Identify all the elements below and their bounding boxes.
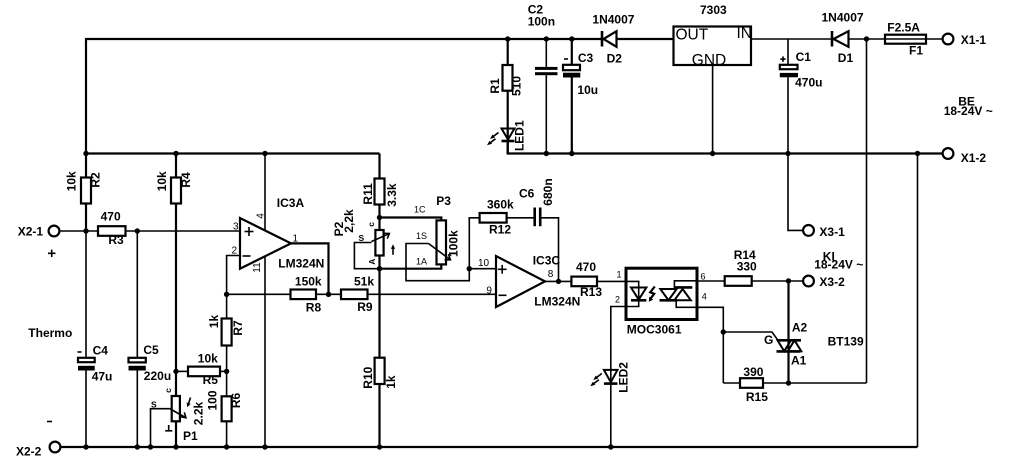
svg-text:BT139: BT139 — [828, 334, 864, 348]
svg-text:C4: C4 — [93, 344, 109, 358]
svg-text:R10: R10 — [361, 366, 375, 388]
node dot +V rail at IC3A pin4 — [262, 151, 267, 156]
terminal X2-1 — [18, 225, 60, 258]
terminal X1-1 — [943, 33, 987, 47]
wire: ground rail riser to X1-2 line — [917, 154, 919, 448]
wire: IC3A pin 11 to ground rail — [264, 256, 266, 447]
wire: X2-1 to IC3A pin 3 — [61, 230, 241, 232]
svg-text:S: S — [151, 400, 157, 410]
node dot P2 bottom — [377, 266, 382, 271]
node dot P3 wiper / R12 / pin 10 — [467, 266, 472, 271]
wire: MOC pin2 to LED2 — [611, 307, 626, 370]
wire: MOC pin6 to R14 — [697, 280, 725, 282]
wire: ground bottom rail — [61, 446, 918, 448]
svg-text:IN: IN — [737, 25, 753, 42]
wire: node to IC3C pin 10 — [469, 268, 496, 270]
svg-text:P3: P3 — [436, 194, 451, 208]
svg-text:S: S — [359, 233, 365, 243]
node dot gate branch — [721, 329, 726, 334]
svg-text:LM324N: LM324N — [534, 294, 580, 308]
svg-text:R6: R6 — [229, 393, 243, 409]
svg-text:150k: 150k — [295, 274, 322, 288]
svg-text:1N4007: 1N4007 — [592, 13, 634, 27]
resistor R9 51k — [316, 274, 496, 314]
node dot ground rail at P1 — [173, 444, 178, 449]
svg-text:A2: A2 — [792, 320, 808, 334]
node dot ground rail at P1 wiper — [148, 444, 153, 449]
capacitor C1 (electrolytic) — [780, 39, 823, 154]
svg-text:2,2k: 2,2k — [342, 209, 356, 233]
svg-text:Thermo: Thermo — [28, 326, 72, 340]
node dot triac A1 / R15 — [786, 380, 791, 385]
svg-text:R15: R15 — [746, 390, 768, 404]
svg-text:G: G — [764, 333, 773, 347]
diode D2 1N4007 — [592, 13, 634, 66]
capacitor C5 (electrolytic) — [129, 231, 172, 447]
node dot top wire at C3 — [569, 36, 574, 41]
svg-text:X3-2: X3-2 — [819, 275, 845, 289]
wire: IC3A pin 4 to +V rail — [264, 154, 266, 231]
node dot X2-1 line at R2/C4 — [83, 228, 88, 233]
svg-text:R11: R11 — [361, 183, 375, 205]
capacitor C6 680n — [519, 178, 559, 281]
svg-text:A1: A1 — [791, 353, 807, 367]
node dot +V rail at R2 — [83, 151, 88, 156]
potentiometer P3 100k — [406, 194, 469, 281]
svg-text:1k: 1k — [384, 375, 398, 389]
svg-text:2.2k: 2.2k — [192, 401, 206, 425]
svg-text:R12: R12 — [489, 222, 511, 236]
resistor R13 470 — [571, 260, 626, 299]
svg-text:360k: 360k — [487, 198, 514, 212]
svg-text:2: 2 — [615, 295, 620, 305]
node dot top wire at C2 — [544, 36, 549, 41]
label KI 18-24V — [814, 250, 863, 272]
svg-text:4: 4 — [702, 291, 707, 301]
op-amp IC3C LM324N — [478, 253, 580, 308]
node dot X1-2 line at C3 — [569, 151, 574, 156]
node dot X1-2 line at GND pin — [710, 151, 715, 156]
svg-text:X1-1: X1-1 — [961, 33, 987, 47]
node dot X2-1 line at C5 — [135, 228, 140, 233]
svg-text:1A: 1A — [416, 257, 427, 267]
svg-text:R13: R13 — [580, 285, 602, 299]
diode D1 1N4007 — [822, 11, 864, 66]
wire: gate to triac — [723, 332, 778, 340]
wire: riser from fused line down to triac A1 node — [866, 39, 868, 383]
capacitor C4 (electrolytic) — [78, 231, 113, 447]
resistor R6 — [205, 390, 243, 447]
svg-text:C6: C6 — [519, 186, 535, 200]
svg-text:c: c — [163, 388, 173, 393]
wire: regulator IN to D1/C1 — [751, 38, 943, 40]
triac Q1 BT139 — [764, 281, 864, 383]
svg-text:100k: 100k — [447, 230, 461, 257]
svg-text:3.3k: 3.3k — [385, 183, 399, 207]
wire: +V top rail from left corner to regulator OUT — [86, 39, 674, 154]
trimmer P2 2,2k — [332, 209, 395, 269]
resistor R3 — [98, 210, 126, 248]
svg-text:LED1: LED1 — [513, 120, 527, 151]
capacitor C3 (electrolytic) — [563, 39, 598, 154]
svg-text:GND: GND — [692, 52, 726, 69]
svg-text:R1: R1 — [488, 78, 502, 94]
LED LED1 — [487, 120, 527, 153]
wire: P2 bottom node to P3 bottom 1A — [380, 264, 442, 268]
label BE 18-24V — [944, 95, 993, 118]
regulator U1 7303 — [674, 3, 753, 69]
svg-text:R7: R7 — [231, 320, 245, 336]
node dot X1-2 line at bottom riser — [915, 151, 920, 156]
svg-text:330: 330 — [737, 260, 757, 274]
svg-text:F2.5A: F2.5A — [887, 21, 920, 35]
svg-text:3: 3 — [233, 222, 239, 233]
svg-text:680n: 680n — [541, 178, 555, 205]
svg-text:1S: 1S — [416, 231, 427, 241]
svg-text:510: 510 — [510, 76, 524, 96]
resistor R12 360k — [469, 198, 533, 269]
svg-text:100: 100 — [205, 390, 219, 410]
svg-text:10k: 10k — [65, 171, 79, 191]
node dot top wire at R1 — [505, 36, 510, 41]
svg-text:IC3A: IC3A — [277, 196, 305, 210]
op-amp IC3A LM324N — [232, 196, 325, 273]
svg-text:R8: R8 — [306, 300, 322, 314]
terminal X2-2 — [16, 422, 60, 459]
node dot R14 / triac A2 — [786, 278, 791, 283]
svg-text:R3: R3 — [108, 233, 124, 247]
svg-text:1C: 1C — [414, 205, 426, 215]
fuse F1 F2.5A — [885, 21, 926, 58]
wire: +V left horizontal rail — [86, 152, 380, 154]
svg-text:10: 10 — [478, 258, 490, 269]
node dot R11/P2/P3 top — [377, 215, 382, 220]
svg-text:X3-1: X3-1 — [819, 225, 845, 239]
svg-text:1N4007: 1N4007 — [822, 11, 864, 25]
svg-text:LM324N: LM324N — [278, 257, 324, 271]
wire: regulator GND pin down to X1-2 rail — [712, 65, 714, 154]
svg-text:MOC3061: MOC3061 — [627, 323, 682, 337]
svg-text:51k: 51k — [354, 274, 374, 288]
node dot IC3C output / C6 — [556, 279, 561, 284]
svg-text:1: 1 — [617, 270, 622, 280]
svg-text:LED2: LED2 — [617, 362, 631, 393]
resistor R7 — [207, 294, 245, 396]
svg-text:OUT: OUT — [676, 27, 709, 44]
svg-text:c: c — [366, 222, 376, 227]
node dot ground rail at C4 — [83, 444, 88, 449]
node dot ground rail at LED2 — [608, 444, 613, 449]
wire: MOC pin4 down — [697, 307, 723, 383]
svg-text:X2-2: X2-2 — [16, 445, 42, 459]
svg-text:10u: 10u — [577, 83, 598, 97]
svg-text:C3: C3 — [578, 51, 594, 65]
svg-text:9: 9 — [486, 285, 492, 296]
svg-text:18-24V ~: 18-24V ~ — [944, 104, 993, 118]
trimmer P1 2.2k — [151, 388, 206, 447]
svg-text:X2-1: X2-1 — [18, 225, 44, 239]
node dot ground rail at R10 — [377, 444, 382, 449]
node dot +V rail at R4 — [173, 151, 178, 156]
resistor R1 — [488, 39, 524, 128]
node dot ground rail at C5 — [135, 444, 140, 449]
svg-text:R5: R5 — [203, 373, 219, 387]
wire: X3-1 drop from ground line — [788, 154, 803, 231]
wire: node to P3 top 1C — [380, 218, 442, 221]
svg-text:11: 11 — [252, 262, 263, 273]
svg-text:47u: 47u — [92, 370, 113, 384]
node dot R8/R9/pin1 — [326, 292, 331, 297]
resistor R8 150k — [227, 274, 322, 314]
svg-text:470u: 470u — [795, 76, 822, 90]
capacitor C2 — [528, 2, 558, 153]
svg-text:R9: R9 — [357, 300, 373, 314]
wire: IC3A pin 2 feedback — [227, 256, 240, 295]
svg-text:D1: D1 — [838, 51, 854, 65]
svg-text:D2: D2 — [607, 52, 623, 66]
svg-text:C1: C1 — [796, 50, 812, 64]
wire: X1-2 / ground return line — [508, 141, 943, 154]
svg-text:IC3C: IC3C — [533, 253, 561, 267]
optocoupler MOC3061 — [615, 268, 707, 336]
svg-text:10k: 10k — [198, 352, 218, 366]
svg-text:470: 470 — [101, 210, 121, 224]
svg-text:F1: F1 — [909, 44, 923, 58]
resistor R10 1k — [361, 269, 398, 447]
node dot ground rail at R6 — [224, 444, 229, 449]
node dot top wire at triac riser — [864, 36, 869, 41]
svg-text:18-24V ~: 18-24V ~ — [814, 258, 863, 272]
svg-text:6: 6 — [701, 271, 706, 281]
svg-text:7303: 7303 — [700, 3, 727, 17]
terminal X3-1 — [803, 225, 845, 239]
resistor R15 390 — [723, 365, 866, 404]
terminal X3-2 — [803, 275, 845, 289]
resistor R11 3.3k — [361, 154, 399, 218]
svg-text:P1: P1 — [183, 429, 198, 443]
terminal X1-2 — [943, 148, 987, 165]
resistor R14 330 — [725, 248, 803, 286]
svg-text:R2: R2 — [89, 172, 103, 188]
svg-text:R4: R4 — [179, 172, 193, 188]
svg-text:470: 470 — [576, 260, 596, 274]
svg-text:X1-2: X1-2 — [961, 151, 987, 165]
node dot X1-2 line at C1/X3-1 — [785, 151, 790, 156]
svg-text:10k: 10k — [155, 171, 169, 191]
node dot ground rail at IC3A pin11 — [262, 444, 267, 449]
svg-text:8: 8 — [548, 269, 554, 280]
svg-text:390: 390 — [743, 365, 763, 379]
resistor R2 — [65, 154, 103, 232]
node dot X1-2 line at C2 — [544, 151, 549, 156]
resistor R4 — [155, 154, 193, 397]
LED LED2 — [590, 362, 630, 447]
resistor R5 — [173, 352, 229, 387]
svg-text:100n: 100n — [528, 15, 555, 29]
wire: IC3C output to R13 — [545, 280, 571, 282]
wire: IC3A output pin 1 down to R8 — [291, 243, 329, 294]
svg-text:C5: C5 — [143, 343, 159, 357]
svg-text:A: A — [367, 259, 377, 265]
node dot feedback/R7/R8 — [224, 292, 229, 297]
svg-text:1k: 1k — [207, 315, 221, 329]
svg-text:220u: 220u — [144, 369, 171, 383]
